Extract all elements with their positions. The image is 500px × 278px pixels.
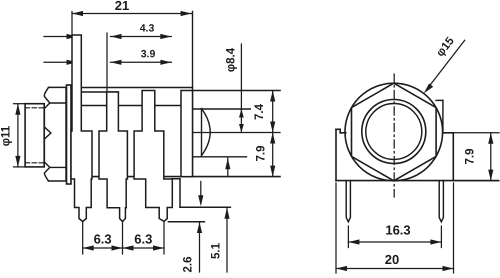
dim 7.9 right view extension lines [444,133,500,181]
dim 16.3 extension lines [348,226,441,248]
dim 16.3 dimension line [348,239,441,244]
dim 7.4 dimension line [270,91,275,133]
extension line blade B left edge [106,33,108,92]
svg-text:20: 20 [385,252,399,267]
svg-text:16.3: 16.3 [385,222,410,237]
pin A extension line [82,222,84,255]
hex nut front [352,83,437,181]
washer flange [67,85,72,184]
contact blade D [181,91,193,177]
dim phi11 extension ticks [14,104,26,167]
internal ledge line [81,91,118,93]
dim 3.9 dimension line [110,60,171,65]
dim 20 extension lines [336,183,454,273]
hex nut [44,87,66,181]
short up arrow under sleeve line [225,158,230,176]
dim 21 dimension line [72,11,192,16]
pin B extension line [122,222,124,255]
body front outline [336,129,498,180]
svg-text:7.9: 7.9 [465,149,477,165]
pin C extension line [163,221,165,254]
dim 20 dimension line [336,266,454,271]
bushing ring outer circle [362,100,426,164]
svg-text:4.3: 4.3 [140,22,155,34]
svg-text:2.6: 2.6 [183,257,195,273]
dim phi8.4 extension line [240,44,242,109]
tip contact dome [202,109,211,156]
contact blade A [71,35,92,222]
svg-text:7.9: 7.9 [256,146,268,162]
bushing ring inner circle [366,104,422,160]
body outline [71,12,280,177]
cylinder centerline [192,132,280,134]
svg-text:21: 21 [115,0,129,13]
dim 3.9 left outside arrow [44,60,78,65]
threaded bushing [25,104,44,167]
svg-text:7.4: 7.4 [254,103,266,120]
svg-text:6.3: 6.3 [134,231,152,246]
svg-text:6.3: 6.3 [94,231,112,246]
vertical centerline [393,74,395,197]
contact blade B [99,92,127,222]
dim 7.9 right view dimension line [488,133,493,181]
extension line above blade A [71,12,73,36]
cylinder inner bottom line [192,156,247,158]
front left pin [346,181,350,222]
svg-text:3.9: 3.9 [141,48,156,60]
cylinder tip inner top line [192,108,251,110]
cylinder tip outer top line [192,90,280,92]
dim phi8.4 radius arrows [239,109,244,133]
svg-text:5.1: 5.1 [211,242,223,259]
dim 6.3 first dimension line [83,245,123,250]
dim 6.3 second dimension line [123,245,165,250]
svg-text:φ8.4: φ8.4 [226,47,238,72]
sleeve lug foot [169,179,231,222]
dim 2.6 upper arrow [198,182,203,207]
dim phi15 leader arrow [424,40,465,93]
dim 4.3 left outside arrow [44,34,78,39]
contact blade C [134,91,172,222]
front flange circle phi15 [345,83,443,181]
dim 2.6 lower arrow [197,222,202,272]
front right pin [439,181,443,222]
dim 5.1 arrow [224,208,229,272]
dim phi11 dimension line [15,104,20,167]
dim 7.9 dimension line left view [270,133,275,177]
mounting tab [436,100,443,132]
dim 4.3 dimension line [111,34,172,39]
internal sleeve line [82,105,181,107]
svg-text:φ11: φ11 [1,125,13,146]
